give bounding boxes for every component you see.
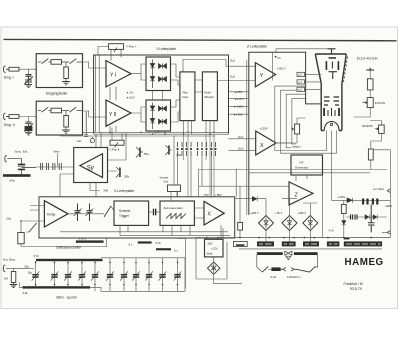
op-amp Y (final) xyxy=(255,63,275,87)
svg-text:-75V: -75V xyxy=(203,193,209,197)
bridge rectifier B4 xyxy=(208,262,220,274)
transformer core bowtie xyxy=(285,251,292,255)
connector chevrons mains xyxy=(281,268,297,272)
wire mid verticals xyxy=(221,169,240,238)
rotary switch wafer contacts group 2 xyxy=(197,142,207,156)
wire Sy to trigger below xyxy=(60,174,100,197)
svg-text:Multi-: Multi- xyxy=(204,91,211,95)
junction dots on bus xyxy=(206,237,372,239)
switch S1a xyxy=(42,59,49,64)
wire X amp output xyxy=(276,142,293,144)
wire Y plate nested L 1 xyxy=(275,86,327,150)
trimmer bar 2 xyxy=(156,248,171,250)
connector chevron 2 xyxy=(387,231,390,235)
grid label g3 xyxy=(297,87,305,91)
Schmitt-Trigger box xyxy=(114,201,149,225)
wire gate2 to flip-flop xyxy=(171,100,180,122)
series resistor R4 (Eing.II) xyxy=(9,115,19,119)
HT-Generator box xyxy=(291,155,323,175)
connector chevron 1 xyxy=(387,189,390,193)
grid label g1 xyxy=(297,80,305,84)
svg-text:Flip-: Flip- xyxy=(183,91,189,95)
transistor Q2 (95b) xyxy=(116,167,120,178)
svg-text:HAMEG: HAMEG xyxy=(345,257,384,268)
coupling capacitor C3 (sync) xyxy=(7,159,36,175)
svg-text:Y: Y xyxy=(260,73,264,79)
wire Y plate nested L 2 xyxy=(281,90,337,153)
wire flip-flop to multivibrator xyxy=(195,80,203,92)
svg-text:◄-15V: ◄-15V xyxy=(234,90,243,94)
svg-text:15p: 15p xyxy=(28,270,33,274)
switch S3 trigger xyxy=(104,206,111,217)
svg-text:0,9k: 0,9k xyxy=(23,291,29,295)
trimmer capacitor bank column 4 xyxy=(78,261,86,286)
wire trigger level xyxy=(21,220,107,247)
svg-text:55a: 55a xyxy=(144,152,149,156)
diode pair D3 (bowtie) xyxy=(159,63,167,68)
wire intens chain xyxy=(370,121,381,150)
Eingangsteiler I box xyxy=(36,54,82,88)
resistor R9 (HV divider) xyxy=(367,79,373,90)
capacitor C10 xyxy=(368,205,375,233)
svg-text:+125V: +125V xyxy=(338,195,346,199)
wire stab loop xyxy=(196,238,242,284)
trimmer capacitor bank column 10 xyxy=(159,258,167,292)
svg-text:Eingangsteiler: Eingangsteiler xyxy=(46,92,68,96)
wire input I to attenuator xyxy=(19,62,38,69)
svg-text:►-150V: ►-150V xyxy=(234,105,244,109)
shunt resistor R3 (attenuator I) xyxy=(64,67,69,79)
diode D9 xyxy=(347,198,352,203)
wire anode to Z board xyxy=(276,49,328,53)
ground (attenuator I) xyxy=(62,82,70,85)
svg-text:Cka: Cka xyxy=(24,265,29,269)
resistor R8 xyxy=(238,223,243,231)
wire nested L 4 xyxy=(292,98,306,144)
svg-text:Z-Leiterplatte: Z-Leiterplatte xyxy=(247,45,267,49)
transistor Q1 (55a) xyxy=(136,147,143,158)
CRT grid dashes row 3 xyxy=(324,104,339,106)
svg-text:Flop: Flop xyxy=(183,95,189,99)
op-amp X (output stage) xyxy=(204,201,224,225)
series resistor R2 (attenuator I) xyxy=(51,60,62,65)
svg-text:-15V: -15V xyxy=(207,242,213,246)
svg-text:g 1: g 1 xyxy=(298,80,302,84)
wire hor input xyxy=(6,268,34,271)
wire vernier pot feed xyxy=(173,136,175,185)
wire Sy outputs right xyxy=(108,134,127,171)
node P1 xyxy=(275,56,277,58)
sync amplifier Sy box xyxy=(74,148,108,183)
op-amp Y II xyxy=(106,100,131,126)
sawtooth waveform symbol xyxy=(166,214,186,219)
diode D2 xyxy=(150,77,154,81)
panel bar (timebase bottom) xyxy=(23,286,91,288)
multivibrator U2 box xyxy=(202,72,217,121)
resistor R7 (trigger level) xyxy=(18,233,24,244)
trimmer capacitor bank column 2 xyxy=(51,261,59,286)
svg-text:-195O: -195O xyxy=(385,204,392,208)
wire bottom bus thin extension xyxy=(90,287,185,291)
wire komp inputs xyxy=(21,206,44,222)
svg-text:ext. Mod: ext. Mod xyxy=(373,187,384,191)
rotary switch wafer contacts group 1 xyxy=(177,142,192,156)
svg-text:Ex2: Ex2 xyxy=(239,147,244,151)
svg-text:Y II: Y II xyxy=(109,112,116,118)
wire astigm top xyxy=(276,118,306,143)
bridge rectifier B1 xyxy=(259,216,274,231)
svg-text:Y-Pos. I: Y-Pos. I xyxy=(126,45,137,49)
wire Y-Pos.I pot to Y I xyxy=(98,47,121,61)
bridge rectifier B3 xyxy=(303,216,318,231)
op-amp Komp xyxy=(44,201,68,227)
ground (attenuator II) xyxy=(62,130,70,133)
svg-text:INTENS: INTENS xyxy=(362,124,373,128)
svg-text:Schmitt-: Schmitt- xyxy=(119,209,131,213)
svg-text:. 20µ: . 20µ xyxy=(5,216,12,220)
svg-text:FOCUS: FOCUS xyxy=(375,101,385,105)
wire main horizontal bus xyxy=(196,237,390,239)
svg-text:5,7k: 5,7k xyxy=(34,254,40,258)
wire -15V rail stub xyxy=(229,91,249,93)
wire multivibrator drops to bus xyxy=(206,121,214,135)
trimmer capacitor bank column 9 xyxy=(145,258,153,292)
diode pair D10 xyxy=(365,215,369,220)
svg-text:Stab.: Stab. xyxy=(207,252,214,256)
wire branch to input cap C1 xyxy=(28,69,30,74)
trimmer capacitor bank column 7 xyxy=(120,258,128,292)
svg-text:D13-41GH: D13-41GH xyxy=(357,56,378,61)
wire bus line 3 xyxy=(60,135,215,137)
svg-text:4,7k: 4,7k xyxy=(329,229,335,233)
potentiometer Astigm xyxy=(295,124,300,134)
wire resistor to ground xyxy=(65,79,67,82)
wire Y II output to gate 2 xyxy=(131,107,146,122)
resistor R12 1M xyxy=(11,272,16,283)
wire divider node down xyxy=(65,62,67,67)
wire trigger row xyxy=(68,206,114,214)
svg-text:P1: P1 xyxy=(278,56,282,60)
diode D6 xyxy=(150,119,154,123)
svg-text:Eing. I: Eing. I xyxy=(4,76,14,80)
svg-text:Zeitbasenschalter: Zeitbasenschalter xyxy=(56,245,82,249)
wire left bottom stub xyxy=(20,283,23,288)
svg-text:Astigm.: Astigm. xyxy=(292,144,302,148)
CRT electrode T xyxy=(329,62,337,80)
svg-text:+180 V: +180 V xyxy=(298,211,307,215)
potentiometer Y-Pos. II xyxy=(110,140,124,145)
wire HV chain xyxy=(354,70,370,117)
wire timebase internal rows xyxy=(60,225,230,235)
wire cascade bottom xyxy=(344,225,388,238)
wire gate1 to flip-flop xyxy=(171,64,180,85)
wire attenuator II internal row xyxy=(38,110,83,112)
svg-text:54b: 54b xyxy=(104,188,109,192)
Z board box edges xyxy=(249,52,321,215)
X board outer box xyxy=(39,197,235,238)
diode pair D4 (bowtie) xyxy=(159,76,167,81)
wire cascade row 2 xyxy=(344,200,387,220)
svg-text:Vibrator: Vibrator xyxy=(204,95,214,99)
op-amp Z xyxy=(289,182,313,205)
shunt resistor R6 (attenuator II) xyxy=(64,116,69,128)
CRT deflection plate right xyxy=(338,61,340,70)
wire PSU top row xyxy=(235,199,317,216)
svg-text:Netz: Netz xyxy=(54,150,61,154)
wire bus to Sy box drops xyxy=(96,132,101,147)
svg-text:Trigger: Trigger xyxy=(119,214,130,218)
rotary switch wafer contacts group 3 xyxy=(211,142,216,156)
svg-text:0,7µ 5: 0,7µ 5 xyxy=(79,237,87,241)
potentiometer FOCUS xyxy=(367,98,373,108)
wire X attenuator box corner xyxy=(198,169,200,197)
diode D1 xyxy=(152,60,154,89)
diode D5 xyxy=(152,103,154,130)
trimmer capacitor bank column 1 xyxy=(32,261,40,286)
CRT funnel dashed edge xyxy=(344,57,348,83)
capacitor pair C4 (trigger coupling) xyxy=(74,204,82,222)
svg-text:Sy: Sy xyxy=(87,165,95,172)
bus label bar 4 xyxy=(303,241,319,246)
capacitor C7 (cascade) xyxy=(362,199,364,205)
transformer primary winding left xyxy=(257,252,283,255)
Eingangsteiler II box xyxy=(36,101,82,135)
wire HT generator drop xyxy=(296,175,323,238)
svg-text:Komp.: Komp. xyxy=(47,212,56,216)
series resistor R1 (Eing.I) xyxy=(9,67,19,71)
wire Y-Pos.II pot to Y II xyxy=(112,128,122,140)
wire Z board left parallel xyxy=(246,60,248,215)
svg-text:54a: 54a xyxy=(10,179,15,183)
svg-text:Y-Pos.II: Y-Pos.II xyxy=(109,147,120,151)
potentiometer Zeit (fine) box xyxy=(168,185,181,192)
trimmer capacitor bank column 6 xyxy=(106,258,114,292)
svg-text:g 2: g 2 xyxy=(298,73,302,77)
svg-text:Cal.: Cal. xyxy=(77,139,83,143)
bus label bar 6 (long) xyxy=(344,241,382,246)
svg-text:95b: 95b xyxy=(125,175,130,179)
capacitor pair C5 (trigger coupling) xyxy=(86,204,94,222)
switch S2b xyxy=(70,107,77,112)
CRT cathode dot xyxy=(330,123,332,125)
trimmer capacitor bank column 5 xyxy=(91,261,99,291)
svg-text:0,4A: 0,4A xyxy=(271,275,277,279)
wire zeitgen to X amp xyxy=(194,208,204,218)
panel bar (timebase top) xyxy=(36,259,103,261)
switch S6 (mains right) xyxy=(297,266,316,272)
wires grid labels to CRT neck xyxy=(305,74,322,89)
wire attenuator II output to Y II xyxy=(83,111,107,117)
bus label box 1 (white) xyxy=(233,241,247,246)
trimmer capacitor bank column 3 xyxy=(64,261,72,286)
input connector Eing. I xyxy=(4,66,9,73)
wire bridges to bus xyxy=(266,231,310,242)
wire flip-flop drops to bus xyxy=(184,121,192,135)
CRT deflection plate left xyxy=(326,61,328,70)
svg-text:Sync. Ext.: Sync. Ext. xyxy=(15,150,29,154)
svg-text:+ 56 V: + 56 V xyxy=(275,211,283,215)
HV terminal cap xyxy=(366,68,374,70)
front panel marker bar 54a xyxy=(3,174,31,177)
switch S4 xyxy=(29,223,37,232)
wire gate2 drops to bus xyxy=(150,131,165,134)
svg-text:◄+12 V: ◄+12 V xyxy=(234,97,244,101)
svg-text:Ey1: Ey1 xyxy=(230,58,235,62)
wire +12V rail stub xyxy=(229,98,249,100)
diode gate box 1 xyxy=(146,57,171,91)
mains enclosure sides xyxy=(257,255,318,272)
bus label bar 2 xyxy=(257,241,274,246)
CRT anode terminal xyxy=(328,49,336,54)
small mark above bar 6 xyxy=(344,238,350,240)
diode D13 xyxy=(252,196,257,201)
wire CRT cathode down xyxy=(327,131,337,201)
wire flip-flop and multivibrator drops continued xyxy=(184,134,215,197)
bridge rectifier B2 xyxy=(282,216,297,231)
diode pair D7 (bowtie) xyxy=(159,106,167,111)
coupling capacitor C6 (schmitt to zeitgen) xyxy=(149,209,160,216)
wire divider node down xyxy=(65,111,67,116)
top border thick line xyxy=(4,39,396,40)
op-amp Y I xyxy=(106,61,131,87)
wire Ey1 net xyxy=(183,60,255,73)
wire komp output xyxy=(68,213,75,215)
wire vertical into Y amp xyxy=(271,52,273,80)
wire nested L 3 xyxy=(286,94,305,148)
calibrator symbol Cal. xyxy=(84,112,94,143)
trimmer bar 1 xyxy=(138,241,152,243)
transformer primary winding right xyxy=(294,252,318,255)
wire Ey2 net xyxy=(217,80,255,82)
svg-text:5 x: 5 x xyxy=(174,249,178,253)
wire attenuator I internal row xyxy=(38,61,83,63)
svg-text:1M: 1M xyxy=(4,276,9,280)
svg-text:+265 V: +265 V xyxy=(250,211,259,215)
wire X amp inputs xyxy=(229,139,256,151)
resistor R11 4,7k xyxy=(341,205,346,214)
svg-text:+150 V: +150 V xyxy=(277,66,286,70)
wire sync selector row xyxy=(36,166,74,168)
trimmer capacitor C1 with ground xyxy=(24,75,33,88)
transformer funnel symbol xyxy=(286,256,291,259)
svg-text:►+25V: ►+25V xyxy=(234,112,243,116)
svg-text:g 3: g 3 xyxy=(298,88,302,92)
svg-text:5 x: 5 x xyxy=(129,243,133,247)
switch S5 (mains left) xyxy=(262,266,268,272)
diode D12 (down) xyxy=(342,221,346,225)
wire +25V rail stub xyxy=(229,113,249,115)
svg-text:5,7k: 5,7k xyxy=(156,241,162,245)
electrolytic capacitor C2 with ground xyxy=(24,122,33,135)
switch S1b xyxy=(70,59,77,64)
CRT grid dashes row 1 xyxy=(324,96,339,98)
potentiometer INTENS xyxy=(379,125,385,133)
svg-text:Zeit-Generator: Zeit-Generator xyxy=(164,206,184,210)
svg-text:Hor. Eing.: Hor. Eing. xyxy=(3,258,16,262)
wire Netz pick-off xyxy=(57,154,59,167)
trimmer capacitor bank column 8 xyxy=(132,258,140,292)
wire gate1 column drops xyxy=(153,91,163,101)
wire timebase drop xyxy=(178,238,185,288)
diode pair D8 (bowtie) xyxy=(159,119,167,124)
wire branch to input cap C2 xyxy=(28,117,30,123)
svg-text:X: X xyxy=(260,143,264,149)
CRT grid dashes row 2 xyxy=(324,100,339,102)
svg-text:Frankfurt / M: Frankfurt / M xyxy=(344,282,363,286)
wire switch cluster drops to X board xyxy=(178,156,212,197)
wire rails to right edge xyxy=(199,170,387,187)
wire input II to attenuator xyxy=(19,111,38,117)
op-amp X (pre) xyxy=(256,131,276,155)
CRT funnel D13-41GH xyxy=(315,54,346,131)
Y board outer box xyxy=(94,55,229,134)
input connector Hor xyxy=(3,265,5,272)
svg-text:Ey2: Ey2 xyxy=(230,75,235,79)
svg-text:Eing. II: Eing. II xyxy=(4,123,15,127)
potentiometer Y-Pos. I xyxy=(109,44,124,50)
CRT gun electrodes xyxy=(323,108,325,116)
resistor R10 xyxy=(368,149,373,160)
trimmer capacitor bank column 11 xyxy=(174,258,182,292)
wire HV cascade row xyxy=(332,199,391,201)
wire to fuse xyxy=(268,268,271,270)
svg-text:Ex1: Ex1 xyxy=(239,135,244,139)
input connector Eing. II xyxy=(4,113,9,120)
voltage regulator box +12V Stab. xyxy=(205,239,224,257)
svg-text:Generator: Generator xyxy=(295,166,309,170)
switch S2a xyxy=(42,107,49,112)
svg-text:+12V: +12V xyxy=(211,247,218,251)
svg-text:Zeit: Zeit xyxy=(164,180,169,184)
wire Y I to Y II bias verticals xyxy=(110,87,116,134)
transistor Q3 xyxy=(166,146,172,156)
svg-text:+120V: +120V xyxy=(260,126,268,130)
svg-text:+ 85V: + 85V xyxy=(215,193,222,197)
bus label bar 3 xyxy=(282,241,296,246)
svg-text:X-Leiterplatte: X-Leiterplatte xyxy=(114,189,134,193)
CRT screen electrode xyxy=(329,57,336,59)
ground (hor input) xyxy=(10,283,17,288)
flip-flop U1 box xyxy=(180,72,195,121)
diode gate box 2 xyxy=(146,100,171,131)
svg-text:◄ -5V: ◄ -5V xyxy=(126,91,134,95)
svg-text:110/220 V~: 110/220 V~ xyxy=(287,275,302,279)
svg-text:Y-Leiterplatte: Y-Leiterplatte xyxy=(156,47,176,51)
wire resistor to ground xyxy=(65,127,67,130)
wire bus line 1 xyxy=(36,131,229,133)
op-amp Sy (points left) xyxy=(80,154,103,178)
wire zeit pot into box xyxy=(171,192,177,202)
panel bar Zeitbasenschalter xyxy=(76,240,104,242)
svg-text:◄+12V: ◄+12V xyxy=(126,95,135,99)
capacitor C8 (cascade) xyxy=(372,199,374,205)
wire secondary rail xyxy=(239,248,382,250)
capacitor C9 xyxy=(351,215,358,220)
series resistor R5 (attenuator II) xyxy=(51,108,62,113)
fuse F1 xyxy=(271,267,280,271)
wire Y I output to gate 1 xyxy=(131,64,146,80)
diode pair D11 xyxy=(373,215,377,220)
svg-text:93-5-79: 93-5-79 xyxy=(350,287,362,291)
wire right edge rail xyxy=(371,150,391,238)
svg-text:Y I: Y I xyxy=(110,72,116,78)
junction dots on Y board bus xyxy=(95,132,214,137)
Zeit-Generator box xyxy=(160,201,194,225)
wire supply rails inside Y board xyxy=(96,55,100,132)
svg-text:30ms - 1µs/cm: 30ms - 1µs/cm xyxy=(56,295,77,299)
wire bus line 2 xyxy=(94,133,229,135)
wire attenuator I output to Y I xyxy=(83,62,107,68)
